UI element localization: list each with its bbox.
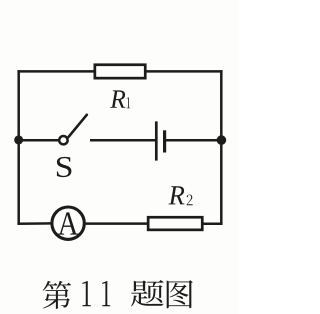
switch S (open knife switch) (59, 115, 87, 145)
wire: right vertical side (220, 71, 223, 223)
battery cell: short plate (negative) (163, 130, 166, 152)
wire: ammeter to resistor R2 (85, 222, 149, 225)
wire: resistor R2 to bottom-right corner (203, 222, 222, 225)
caption digit 1 (second) (102, 281, 110, 306)
label R1 (110, 90, 130, 108)
caption character 图 (167, 280, 193, 308)
ammeter A (circle meter) (52, 207, 84, 239)
resistor R1 (box) (95, 65, 145, 78)
node: right junction (dot) (217, 135, 227, 145)
battery cell: long plate (positive) (155, 121, 158, 160)
caption digit 1 (first) (82, 281, 91, 306)
node: left junction (dot) (14, 135, 23, 144)
wire: left vertical side (17, 71, 20, 223)
caption character 第 (43, 281, 71, 309)
resistor R2 (box) (148, 217, 202, 230)
caption character 题 (131, 280, 164, 306)
wire: top side, left segment to R1 (19, 70, 95, 73)
wire: middle branch, left node to switch (19, 139, 60, 142)
label R2 (168, 186, 192, 205)
wire: battery to right node (166, 139, 221, 142)
wire: top side, R1 to top-right corner (145, 70, 221, 73)
wire: switch to battery (90, 139, 155, 142)
wire: bottom-left corner to ammeter (19, 222, 52, 225)
label S (57, 157, 71, 177)
